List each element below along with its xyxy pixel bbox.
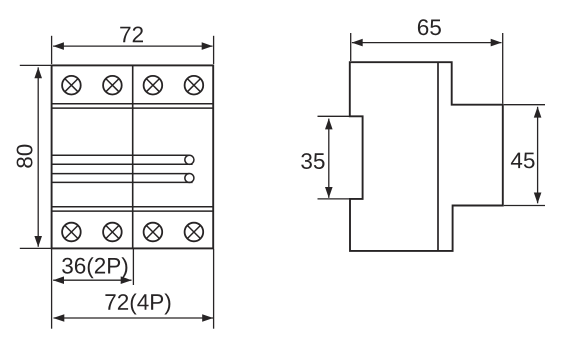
terminal screw top 4 [185,76,204,95]
dimension 36(2P): extension lines [51,249,53,329]
side view internal vertical line [437,62,439,251]
label 35 (rail notch height) [301,153,324,169]
dimension 72(4P): dimension line with arrows [54,317,214,319]
dimension 72(4P): extension line right [213,249,215,329]
toggle lever bar 2 [52,173,194,182]
dimension 72 top: dimension line with arrows [53,45,212,47]
dimension 35: dimension line with arrows [328,119,330,198]
toggle lever bar 1 [52,155,194,164]
top terminal section lower edge (double line) [52,103,214,105]
dimension 80 left: dimension line with arrows [37,67,39,246]
front view center divider [132,65,134,248]
terminal screw bottom 1 [62,223,81,242]
dimension 72 top: extension lines [51,36,53,64]
label 72 (top width) [120,27,143,43]
dimension 45: dimension line with arrows [537,107,539,204]
terminal screw bottom 2 [103,223,122,242]
front view body outline [52,65,214,248]
dimension 65: dimension line with arrows [352,42,502,44]
label 72(4P) [105,294,170,315]
dimension 65: extension lines [350,33,352,61]
dimension 80 left: extension lines [20,64,52,66]
bottom terminal section upper edge (double line) [52,206,214,208]
side view profile outline [350,62,503,251]
terminal screw bottom 3 [144,223,163,242]
label 80 (left height, rotated) [17,145,33,168]
label 45 (right step height) [511,153,535,169]
label 65 (side view width) [418,19,441,35]
terminal screw top 1 [62,76,81,95]
terminal screw top 2 [103,76,122,95]
dimension 35: extension lines [318,115,350,117]
dimension 36(2P): dimension line with arrows [53,279,131,281]
terminal screw top 3 [144,76,163,95]
terminal screw bottom 4 [185,223,204,242]
dimension 45: extension lines [504,104,545,106]
label 36(2P) [62,257,127,278]
